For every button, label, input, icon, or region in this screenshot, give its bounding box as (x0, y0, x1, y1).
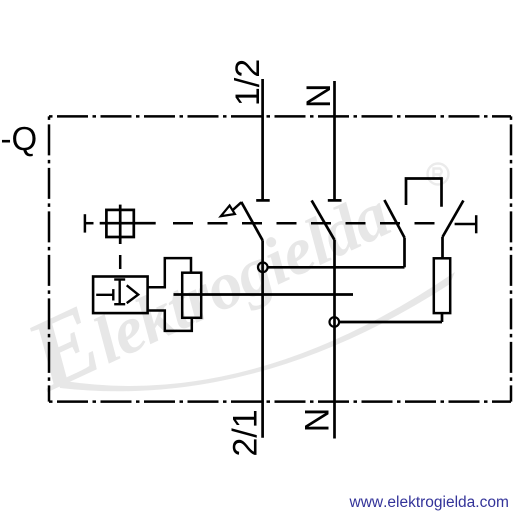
mechanical coupling outline bottom (148, 311, 192, 331)
terminal tick pole N top (328, 199, 342, 202)
wire: pole 1/2 lower lead (261, 240, 264, 437)
auxiliary contact blade (right) (443, 201, 464, 238)
svg-text:-Q: -Q (1, 120, 38, 157)
trip coil box (182, 273, 201, 318)
svg-text:Elektrogielda: Elektrogielda (9, 150, 402, 412)
I> letter I (114, 280, 125, 305)
svg-text:N: N (300, 83, 338, 108)
auxiliary contact bracket (406, 179, 442, 207)
I> greater-than sign (127, 285, 139, 303)
wire: resistor to node N (339, 321, 442, 324)
wire: pole N top lead (333, 81, 336, 200)
wire: aux left lower lead (403, 238, 406, 268)
svg-text:N: N (299, 408, 337, 433)
wire: node to aux (268, 266, 405, 269)
test resistor box (434, 258, 450, 313)
trip arrow head (open triangle) (221, 206, 235, 217)
trip arrow shaft (233, 202, 242, 210)
svg-text:www.elektrogielda.com: www.elektrogielda.com (349, 494, 509, 511)
test button cross horizontal (100, 222, 156, 225)
I> symbol lead (96, 294, 113, 296)
wire: coil conductor (174, 293, 354, 296)
wire: pole 1/2 top lead (261, 79, 264, 200)
residual current release box I> (93, 277, 148, 314)
test button square (106, 210, 133, 237)
test button stub (85, 222, 94, 225)
dashed link from test button to I> release (119, 255, 122, 277)
terminal tick pole 1/2 top (256, 199, 270, 202)
terminal aux right lead (455, 223, 477, 226)
switch contact pole 1/2 blade (241, 202, 262, 240)
svg-text:2/1: 2/1 (227, 409, 265, 456)
enclosure border -Q (dash-dot rectangle) (49, 116, 511, 401)
terminal aux right tick (475, 215, 478, 233)
I> symbol lead tick (112, 289, 114, 300)
switch contact pole N blade (312, 200, 335, 240)
auxiliary contact blade (left) (384, 200, 404, 238)
mechanical coupling outline top (148, 258, 191, 287)
wire: aux right to resistor (441, 237, 444, 258)
node junction on pole N (330, 317, 340, 327)
wire: resistor bottom stub (441, 313, 444, 322)
mechanical linkage dashed line (173, 222, 447, 225)
node junction on pole 1/2 (258, 263, 268, 273)
watermark (9, 150, 455, 412)
test button cross vertical (119, 205, 122, 244)
test button terminal tick (84, 214, 87, 232)
wire: pole N lower lead (333, 240, 336, 439)
